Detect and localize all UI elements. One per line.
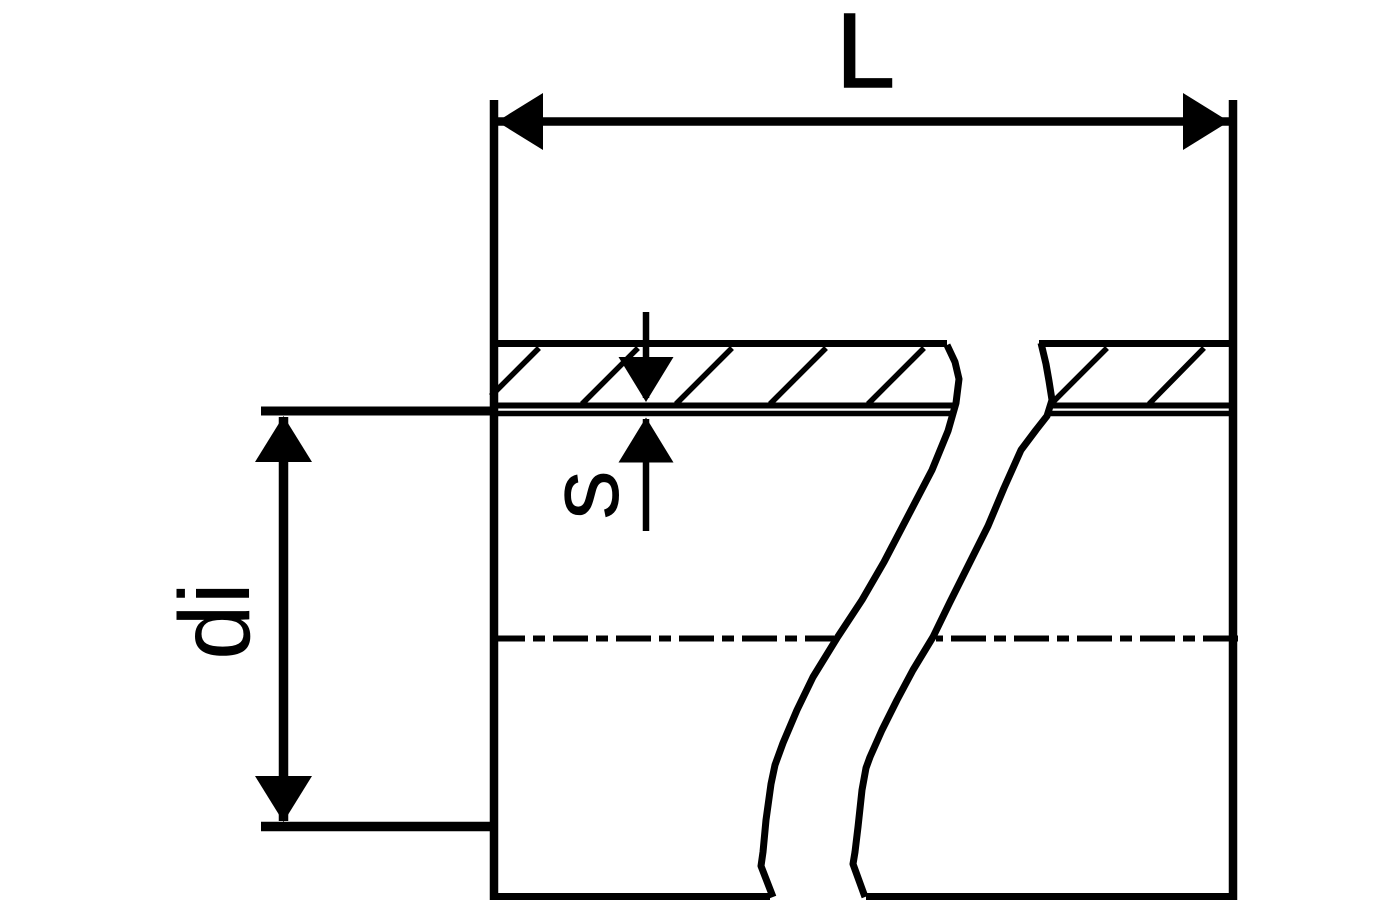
arrowhead L left	[497, 93, 543, 150]
break line left	[761, 345, 959, 897]
dimension s lower leader line	[643, 419, 650, 531]
pipe bottom line (left of break)	[490, 893, 770, 900]
wall hatching right band	[1052, 348, 1204, 404]
pipe outer wall top line (right of break)	[1039, 340, 1237, 347]
pipe outer wall top line (left of break)	[490, 340, 947, 347]
arrowhead di bottom (pointing down)	[255, 776, 312, 822]
arrowhead s upper (pointing down)	[619, 357, 674, 402]
break line right	[853, 343, 1052, 897]
wall inner surface line 1 (left of break)	[490, 403, 956, 409]
svg-text:di: di	[159, 582, 271, 660]
arrowhead s lower (pointing up)	[619, 418, 674, 463]
svg-text:L: L	[836, 0, 895, 110]
di extension line bottom	[261, 822, 497, 832]
svg-text:s: s	[528, 470, 640, 520]
dimension line L	[497, 117, 1229, 126]
pipe bottom line (right of break)	[866, 893, 1237, 900]
centerline (axis) left segment	[490, 636, 834, 642]
extension line right (pipe right end face)	[1229, 100, 1238, 900]
wall inner surface line 1 (right of break)	[1048, 403, 1237, 409]
wall inner surface line 2 (right of break)	[1045, 411, 1237, 417]
di extension line top	[261, 407, 497, 416]
wall inner surface line 2 (left of break)	[490, 411, 954, 417]
dimension line di (vertical)	[279, 417, 289, 821]
dimension s upper leader line	[643, 312, 650, 398]
wall hatching left band	[491, 348, 924, 404]
arrowhead L right	[1183, 93, 1229, 150]
extension line left (pipe left end face)	[490, 100, 499, 900]
arrowhead di top (pointing up)	[255, 416, 312, 462]
centerline (axis) right segment	[936, 636, 1238, 642]
